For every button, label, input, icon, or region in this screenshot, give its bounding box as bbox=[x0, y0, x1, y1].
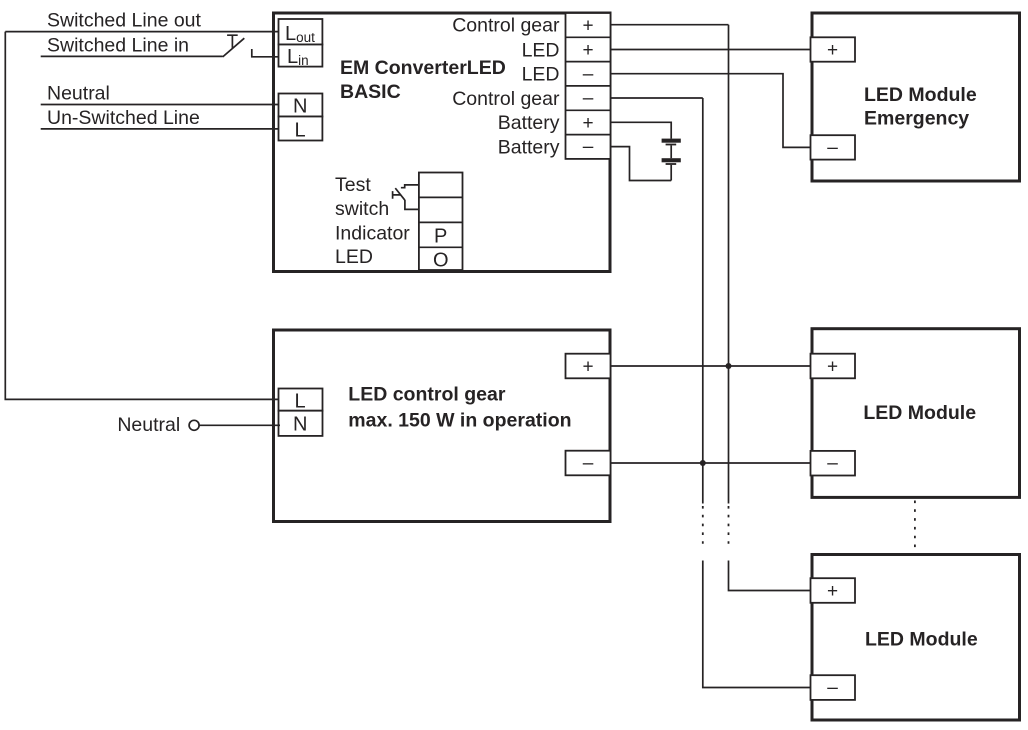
EM converter box U1 bbox=[274, 13, 611, 272]
battery BT1 plates bbox=[662, 139, 681, 143]
svg-text:–: – bbox=[827, 453, 838, 474]
svg-text:–: – bbox=[583, 64, 594, 85]
dotted continuation + bus bbox=[728, 506, 730, 548]
svg-text:N: N bbox=[293, 414, 307, 436]
svg-text:max. 150 W in operation: max. 150 W in operation bbox=[348, 409, 571, 431]
svg-text:Switched Line out: Switched Line out bbox=[47, 10, 202, 32]
svg-text:switch: switch bbox=[335, 198, 389, 220]
svg-text:Emergency: Emergency bbox=[864, 108, 969, 130]
test switch terminal block bbox=[419, 173, 463, 271]
wire + bus to bottom module bbox=[729, 561, 813, 591]
wire switched line in bbox=[41, 55, 223, 57]
svg-text:–: – bbox=[827, 138, 838, 159]
terminal - (middle module) bbox=[811, 451, 856, 476]
svg-text:BASIC: BASIC bbox=[340, 81, 401, 103]
wire - bus lower vertical bbox=[702, 463, 704, 504]
svg-text:LED: LED bbox=[522, 39, 560, 61]
svg-text:Control gear: Control gear bbox=[452, 15, 560, 37]
wire - bus horizontal bbox=[610, 462, 812, 464]
wire switched line out bbox=[5, 31, 280, 33]
terminal L_out bbox=[279, 19, 323, 45]
switch S1 blade bbox=[223, 38, 245, 57]
neutral open terminal circle bbox=[189, 420, 199, 430]
svg-text:Test: Test bbox=[335, 174, 371, 196]
svg-text:L: L bbox=[295, 391, 306, 413]
terminal - (control gear) bbox=[566, 451, 611, 476]
terminal column EM right bbox=[566, 13, 611, 159]
wire battery - loop bbox=[610, 147, 671, 181]
terminal - (emergency) bbox=[811, 135, 856, 159]
dotted continuation between modules bbox=[914, 501, 916, 552]
svg-text:LED: LED bbox=[522, 64, 560, 86]
terminal + (bottom module) bbox=[811, 578, 856, 603]
terminal - (bottom module) bbox=[811, 675, 856, 700]
LED Module (bottom) box bbox=[812, 555, 1020, 721]
svg-text:–: – bbox=[583, 453, 594, 474]
svg-text:Neutral: Neutral bbox=[47, 83, 110, 105]
junction dot - bus bbox=[700, 460, 706, 466]
svg-text:+: + bbox=[827, 40, 838, 61]
test switch S2 actuator bbox=[393, 191, 401, 199]
LED control gear box U2 bbox=[274, 330, 611, 522]
terminal + (middle module) bbox=[811, 354, 856, 379]
svg-text:N: N bbox=[293, 96, 307, 118]
wire control gear - vertical drop bbox=[702, 98, 704, 463]
terminal N (EM) bbox=[279, 94, 323, 117]
svg-text:Battery: Battery bbox=[498, 112, 560, 134]
test switch S2 blade bbox=[395, 188, 405, 200]
LED Module Emergency box bbox=[812, 13, 1020, 181]
svg-text:+: + bbox=[582, 113, 593, 134]
wire neutral top bbox=[41, 104, 280, 106]
wire LED - bbox=[610, 74, 812, 148]
svg-text:Neutral: Neutral bbox=[117, 414, 180, 436]
wire + bus horizontal bbox=[610, 365, 812, 367]
junction dot + bus bbox=[726, 363, 732, 369]
svg-text:+: + bbox=[582, 15, 593, 36]
terminal L (EM) bbox=[279, 117, 323, 141]
svg-text:LED Module: LED Module bbox=[865, 629, 978, 651]
wire - bus to bottom module bbox=[703, 561, 812, 688]
svg-text:L: L bbox=[295, 120, 306, 142]
svg-text:–: – bbox=[583, 88, 594, 109]
wire neutral to N bbox=[199, 424, 280, 426]
battery BT1 axis bbox=[670, 145, 672, 180]
svg-text:P: P bbox=[434, 225, 447, 247]
svg-text:O: O bbox=[433, 250, 449, 272]
terminal L_in bbox=[279, 45, 323, 67]
svg-text:+: + bbox=[582, 357, 593, 378]
wire battery + bbox=[610, 122, 671, 138]
svg-text:Battery: Battery bbox=[498, 137, 560, 159]
svg-text:+: + bbox=[827, 357, 838, 378]
svg-text:Control gear: Control gear bbox=[452, 88, 560, 110]
test switch S2 upper contact bbox=[401, 185, 419, 188]
switch S1 actuator bbox=[227, 35, 238, 48]
dotted continuation - bus bbox=[702, 506, 704, 548]
wire switch to L_in bbox=[252, 49, 280, 57]
wire control gear - horizontal bbox=[610, 97, 703, 99]
svg-text:Switched Line in: Switched Line in bbox=[47, 34, 189, 56]
svg-text:LED: LED bbox=[335, 246, 373, 268]
svg-text:LED Module: LED Module bbox=[863, 402, 976, 424]
svg-text:LED control gear: LED control gear bbox=[348, 384, 506, 406]
svg-text:LED Module: LED Module bbox=[864, 84, 977, 106]
terminal L (control gear) bbox=[279, 389, 323, 411]
wire + bus lower vertical bbox=[728, 366, 730, 504]
test switch S2 lower contact bbox=[405, 200, 419, 209]
wire left rail (loop L_out to control gear L) bbox=[5, 32, 280, 400]
wire un-switched line bbox=[41, 128, 280, 130]
svg-text:EM ConverterLED: EM ConverterLED bbox=[340, 57, 506, 79]
wire control gear + vertical drop bbox=[728, 25, 730, 366]
LED Module (middle) box bbox=[812, 329, 1020, 498]
svg-text:–: – bbox=[827, 678, 838, 699]
wire control gear + horizontal bbox=[610, 24, 729, 26]
terminal + (emergency) bbox=[811, 37, 856, 61]
terminal N (control gear) bbox=[279, 411, 323, 436]
wire LED + bbox=[610, 49, 812, 51]
svg-text:Un-Switched Line: Un-Switched Line bbox=[47, 107, 200, 129]
svg-text:Indicator: Indicator bbox=[335, 222, 410, 244]
svg-text:–: – bbox=[583, 137, 594, 158]
terminal + (control gear) bbox=[566, 354, 611, 379]
svg-text:+: + bbox=[827, 581, 838, 602]
svg-text:+: + bbox=[582, 40, 593, 61]
